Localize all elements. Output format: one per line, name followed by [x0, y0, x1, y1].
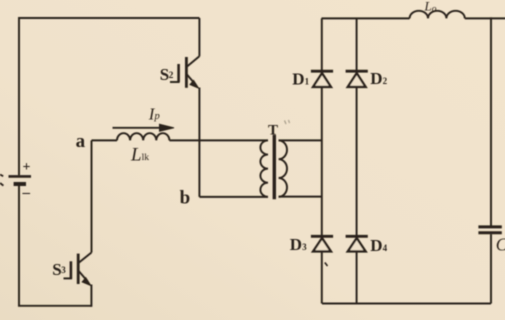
wire: secondary top lead	[279, 139, 322, 141]
speck mark below D3	[325, 263, 328, 267]
diode D3	[311, 236, 333, 251]
wire: secondary bottom lead	[279, 196, 322, 198]
inductor Lo (3 humps)	[410, 11, 465, 19]
wire: S3 emitter vertical to bottom wire	[90, 285, 92, 307]
svg-text:+: +	[23, 160, 31, 175]
battery Vs top plate (long)	[9, 175, 32, 178]
inductor Llk (4 humps)	[117, 133, 169, 140]
wire: top-right horizontal (bridge top to Lo)	[322, 17, 410, 19]
wire: Llk to transformer primary top	[169, 139, 268, 141]
wire: node b horizontal to transformer primary bottom	[199, 196, 268, 198]
diode D4	[346, 236, 368, 251]
wire: bottom-right horizontal	[322, 303, 491, 305]
speck mark near T	[285, 120, 290, 124]
wire: bottom-left horizontal	[18, 305, 91, 307]
diode D2	[346, 71, 368, 87]
wire: node a horizontal to inductor	[92, 139, 118, 141]
transformer primary winding (4 arcs, bulge left)	[260, 140, 268, 196]
transistor S3 (IGBT)	[64, 253, 92, 286]
diode D1	[311, 71, 333, 87]
wire: top-left horizontal (battery+ to S2 collector)	[19, 17, 199, 19]
wire: S2 emitter vertical down through crossover to node b corner	[198, 88, 200, 197]
cut-off source label mark at left edge	[0, 175, 3, 186]
wire: bridge right vertical (D2/D4 branch)	[356, 18, 358, 303]
battery Vs bottom plate (short thick)	[14, 182, 26, 186]
transistor S2 (IGBT)	[170, 56, 199, 88]
wire: left vertical lower (battery - lead)	[18, 186, 20, 306]
current arrow Ip	[113, 124, 175, 131]
wire: node a vertical down to S3 collector	[91, 140, 93, 252]
transformer secondary winding (3 arcs, bulge right)	[279, 140, 287, 196]
svg-text:C: C	[496, 234, 505, 254]
wire: right vertical upper (to capacitor)	[490, 17, 492, 225]
wire: left vertical upper (battery + lead)	[18, 17, 20, 175]
wire: bridge left vertical (D1/D3 branch)	[321, 18, 323, 303]
svg-text:a: a	[76, 131, 86, 152]
svg-text:T: T	[268, 122, 278, 138]
capacitor C bottom plate	[478, 231, 501, 234]
wire: Lo to right edge	[465, 17, 505, 19]
wire: S2 collector drop from top wire	[198, 18, 200, 56]
capacitor C top plate	[478, 225, 501, 228]
transformer T core bar	[273, 135, 276, 200]
svg-text:–: –	[22, 185, 31, 201]
wire: right vertical lower (capacitor to bottom wire)	[490, 234, 492, 303]
svg-text:b: b	[180, 187, 191, 208]
